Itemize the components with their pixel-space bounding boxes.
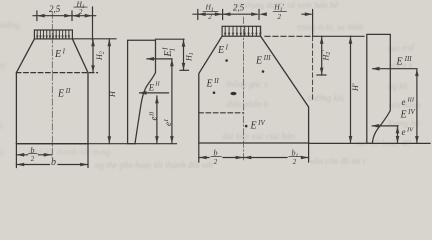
dashed zone line in center profile [199, 112, 244, 114]
dashed zone line in left profile [16, 72, 97, 74]
faint page bleed-through background texts (decorative) [308, 93, 344, 103]
centerline of center profile [243, 17, 245, 160]
e^I dimension line [170, 59, 174, 144]
top dimension line (H1/2, 2,5, H1'/2) [193, 10, 313, 37]
label b/2 fraction (center profile) [211, 149, 222, 166]
svg-text:H2: H2 [95, 51, 105, 61]
right baseline [309, 142, 430, 144]
H' dimension [349, 36, 353, 143]
solid reference line for H2' and H' dims [316, 35, 364, 37]
H2' dimension [317, 36, 326, 75]
right diagram outline with curved boundary [367, 34, 391, 143]
e^III dimension line [415, 69, 419, 144]
svg-text:2: 2 [79, 7, 83, 16]
label b1/2 fraction (center profile) [288, 149, 301, 166]
b/2 dimension center profile [199, 156, 244, 160]
svg-text:2,5: 2,5 [49, 4, 61, 14]
svg-text:EIII: EIII [396, 55, 413, 68]
svg-text:2: 2 [214, 158, 218, 166]
svg-text:EII: EII [206, 77, 220, 90]
stress point dots (center profile) [225, 59, 228, 62]
label b/2 fraction (left profile) [28, 146, 38, 163]
svg-text:2: 2 [293, 158, 297, 166]
svg-text:H2′: H2′ [321, 50, 332, 62]
top dimension line (2,5 and H1/2) [33, 7, 96, 40]
load strip on center profile [222, 26, 261, 36]
svg-text:2: 2 [278, 13, 282, 21]
svg-text:2,5: 2,5 [233, 3, 245, 13]
svg-text:H1: H1 [185, 52, 195, 62]
label H1/2 fraction (center profile) [203, 3, 219, 21]
load strip (distributed load on crest) [34, 30, 72, 39]
svg-text:b: b [51, 157, 56, 168]
ground baseline shared with diagram 1 [16, 143, 176, 145]
b dimension [16, 163, 88, 167]
top reference line of diagram 1 dims [156, 38, 185, 40]
label H1'/2 fraction (center profile) [273, 3, 287, 21]
svg-text:EIV: EIV [250, 119, 266, 132]
H dimension (total height, left profile) [73, 39, 116, 144]
bottom extension lines center profile [199, 143, 309, 162]
svg-text:2: 2 [31, 155, 35, 163]
e^II dimension line [155, 96, 159, 144]
center profile outline [199, 36, 309, 143]
H2 dimension (upper height, left profile) [91, 39, 95, 73]
force arrow E^III [372, 67, 417, 71]
bottom extension lines left profile [16, 144, 88, 168]
b1/2 dimension center profile [244, 156, 309, 160]
svg-text:2: 2 [208, 13, 212, 21]
dashed reference line at crest level to right figure [265, 35, 316, 37]
b/2 dimension [16, 153, 51, 157]
e^IV dimension line [396, 126, 400, 143]
H2 dimension on diagram 1 [180, 39, 189, 70]
force arrow E1_I on diagram 1 [146, 57, 172, 61]
svg-text:EII: EII [148, 81, 161, 93]
svg-text:eIV: eIV [402, 127, 415, 137]
force arrow E^IV [371, 124, 398, 128]
diagram 1 outline with curved boundary [128, 40, 156, 143]
dashed vertical extension below H1'/2 [312, 36, 314, 100]
svg-text:H′: H′ [351, 83, 360, 92]
centerline of left profile [51, 12, 53, 158]
svg-text:eIII: eIII [402, 97, 415, 107]
label H1/2 fraction (left profile) [74, 0, 88, 16]
force arrow E^II on diagram 1 [139, 91, 169, 95]
svg-text:EI: EI [54, 48, 66, 61]
svg-text:EIII: EIII [255, 54, 271, 67]
svg-text:EI: EI [217, 44, 229, 57]
svg-text:EII: EII [57, 87, 71, 100]
svg-text:EI1: EI1 [162, 47, 177, 58]
left profile outline [16, 39, 88, 144]
svg-text:EIV: EIV [400, 108, 416, 121]
